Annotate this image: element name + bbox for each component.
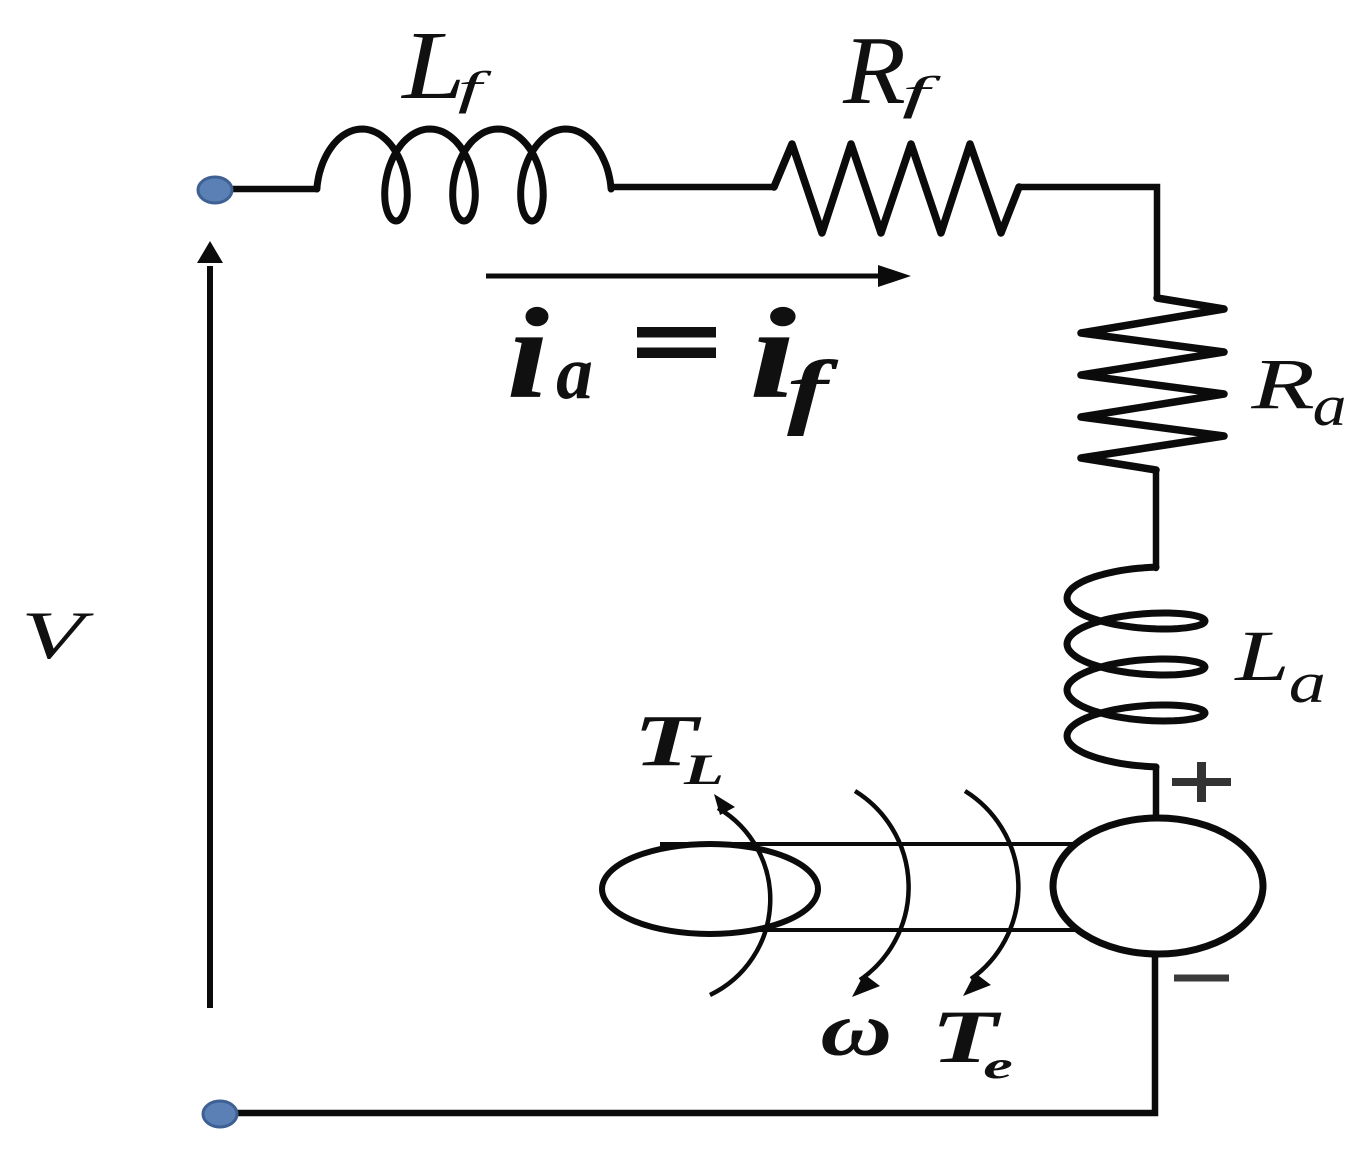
svg-text:a: a	[1313, 373, 1347, 437]
svg-text:a: a	[556, 331, 593, 415]
svg-text:L: L	[400, 11, 465, 119]
svg-text:L: L	[1234, 615, 1289, 696]
svg-text:L: L	[683, 747, 724, 794]
svg-text:R: R	[842, 16, 906, 124]
svg-text:R: R	[1250, 344, 1315, 424]
svg-text:V: V	[21, 597, 94, 673]
svg-text:e: e	[983, 1044, 1013, 1086]
svg-text:ω: ω	[820, 988, 892, 1072]
svg-text:i: i	[507, 282, 550, 426]
svg-text:a: a	[1289, 652, 1326, 716]
